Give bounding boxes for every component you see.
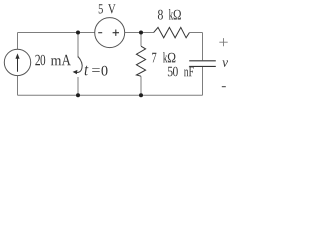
voltage source V1 circle (95, 18, 125, 48)
wire top middle (between source and 8k resistor) (125, 32, 154, 34)
wire switch branch lower stub (77, 77, 79, 95)
node dot top switch (76, 31, 80, 35)
output voltage label v (222, 60, 228, 67)
output terminal minus label (222, 86, 226, 88)
resistor label 7 kOhm (152, 52, 175, 62)
switch blade arc (75, 57, 82, 73)
capacitor label 50 nF (168, 67, 194, 77)
resistor label 8 kOhm (158, 9, 181, 20)
capacitor C top plate (189, 60, 216, 62)
current source I1 circle (4, 49, 30, 75)
resistor R 8k zigzag (154, 27, 190, 37)
voltage source plus sign (113, 30, 119, 36)
node dot bottom 7k (139, 93, 143, 97)
current source I1 arrow (17, 58, 19, 72)
wire left branch above current source (17, 33, 19, 50)
node dot bottom switch (76, 93, 80, 97)
resistor R 7k zigzag (136, 46, 145, 76)
wire 7k branch lower stub (140, 76, 142, 95)
voltage source label 5 V (99, 4, 116, 13)
node dot top 7k (139, 31, 143, 35)
output terminal plus label (219, 38, 227, 46)
wire right branch below capacitor (202, 66, 204, 95)
wire bottom rail (18, 94, 203, 96)
current source label 20 mA (35, 55, 71, 65)
wire left branch below current source (17, 76, 19, 96)
wire 7k branch upper stub (140, 33, 142, 47)
capacitor C bottom plate (189, 65, 216, 67)
switch arrowhead (73, 70, 78, 74)
switch label t = 0 (85, 66, 108, 76)
wire right branch above capacitor (202, 33, 204, 61)
wire top left horizontal (18, 32, 95, 34)
voltage source minus sign (98, 32, 102, 34)
wire switch branch upper stub (77, 33, 79, 58)
wire top right (after 8k resistor) (189, 32, 202, 34)
